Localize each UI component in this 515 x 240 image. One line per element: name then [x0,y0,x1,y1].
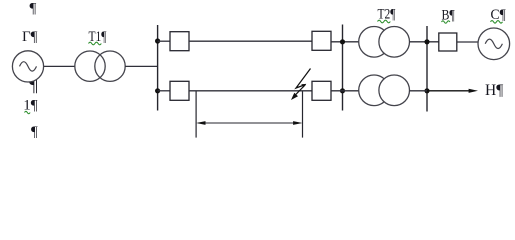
wire T2 to busbar 3 [410,41,439,43]
load arrow H head [469,89,478,93]
dimension line [198,122,301,124]
breaker B square [439,33,457,51]
junction dot busbar3 bottom [424,88,429,93]
squiggle under B [442,21,450,23]
wire B to system C [457,41,478,43]
dimension extension line right [302,92,304,138]
wire T1 to busbar 1 [125,65,157,67]
breaker Q4 square [312,81,331,100]
wire Q3 to Q4 [189,90,312,92]
transformer T2 circle 2 [379,27,410,58]
squiggle under C [491,21,503,24]
fault bolt arrowhead [291,93,298,100]
junction dot busbar1 top [155,38,160,43]
transformer T1 circle 1 [75,51,105,81]
lower transformer circle 1 [359,75,390,106]
breaker Q3 square [170,81,189,100]
junction dot busbar2 top [340,39,345,44]
wire Q4 to lower transformer [331,90,359,92]
junction dot busbar3 top [424,39,429,44]
busbar 2 [342,25,344,111]
generator Г circle [12,51,43,82]
svg-text:Н¶: Н¶ [485,82,503,99]
wire generator to T1 [44,65,76,67]
dimension arrowhead left [196,121,205,125]
squiggle under 1 [25,111,31,113]
junction dot busbar2 bottom [340,88,345,93]
fault bolt mid miter blob [301,84,306,88]
wire Q1 to Q2 [189,40,312,42]
fault lightning bolt [293,69,311,98]
system C sine [485,39,502,48]
squiggle under T1 [89,42,102,45]
transformer T1 circle 2 [95,51,125,81]
breaker Q2 square [312,31,331,50]
wire busbar1 to breaker Q3 [158,90,170,92]
busbar 3 [426,26,428,112]
transformer T2 circle 1 [359,27,390,58]
busbar 1 [157,25,159,111]
wire Q2 to T2 [331,41,359,43]
svg-text:¶: ¶ [31,124,38,140]
svg-text:¶: ¶ [30,1,37,17]
system C circle [478,28,510,60]
dimension arrowhead right [293,121,302,125]
wire busbar1 to breaker Q1 [158,40,170,42]
dimension extension line left [195,92,197,138]
lower transformer circle 2 [379,75,410,106]
junction dot busbar1 bottom [155,88,160,93]
svg-text:Т2¶: Т2¶ [378,7,396,23]
wire lower transformer to busbar 3 [410,90,428,92]
svg-text:Г¶: Г¶ [22,29,38,45]
load arrow H wire [427,90,470,92]
breaker Q1 square [170,32,189,51]
squiggle under T2 [378,20,391,23]
generator sine [20,62,37,71]
